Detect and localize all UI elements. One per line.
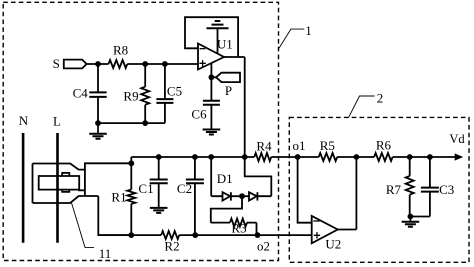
svg-text:o2: o2 [257,238,270,253]
svg-text:R6: R6 [376,138,392,153]
svg-text:C6: C6 [191,106,207,121]
svg-text:o1: o1 [293,138,306,153]
svg-text:P: P [225,83,232,98]
svg-text:S: S [53,56,60,71]
svg-text:R1: R1 [111,189,126,204]
svg-text:R9: R9 [123,88,138,103]
svg-text:D1: D1 [217,171,233,186]
svg-text:C2: C2 [177,181,192,196]
svg-text:N: N [19,113,29,128]
svg-text:2: 2 [377,90,384,105]
svg-text:L: L [53,113,61,128]
svg-text:11: 11 [99,246,112,261]
svg-text:C3: C3 [439,182,454,197]
svg-text:R2: R2 [164,238,179,253]
svg-text:R5: R5 [320,138,335,153]
svg-text:Vd: Vd [449,132,465,146]
svg-text:C5: C5 [167,83,182,98]
svg-text:1: 1 [305,23,312,38]
svg-text:R8: R8 [113,43,128,58]
svg-text:R7: R7 [386,182,402,197]
svg-text:R4: R4 [256,139,272,154]
svg-text:U2: U2 [325,237,341,252]
svg-text:R3: R3 [231,220,246,235]
svg-text:U1: U1 [217,36,233,51]
svg-text:C1: C1 [138,181,153,196]
svg-text:C4: C4 [73,86,89,101]
